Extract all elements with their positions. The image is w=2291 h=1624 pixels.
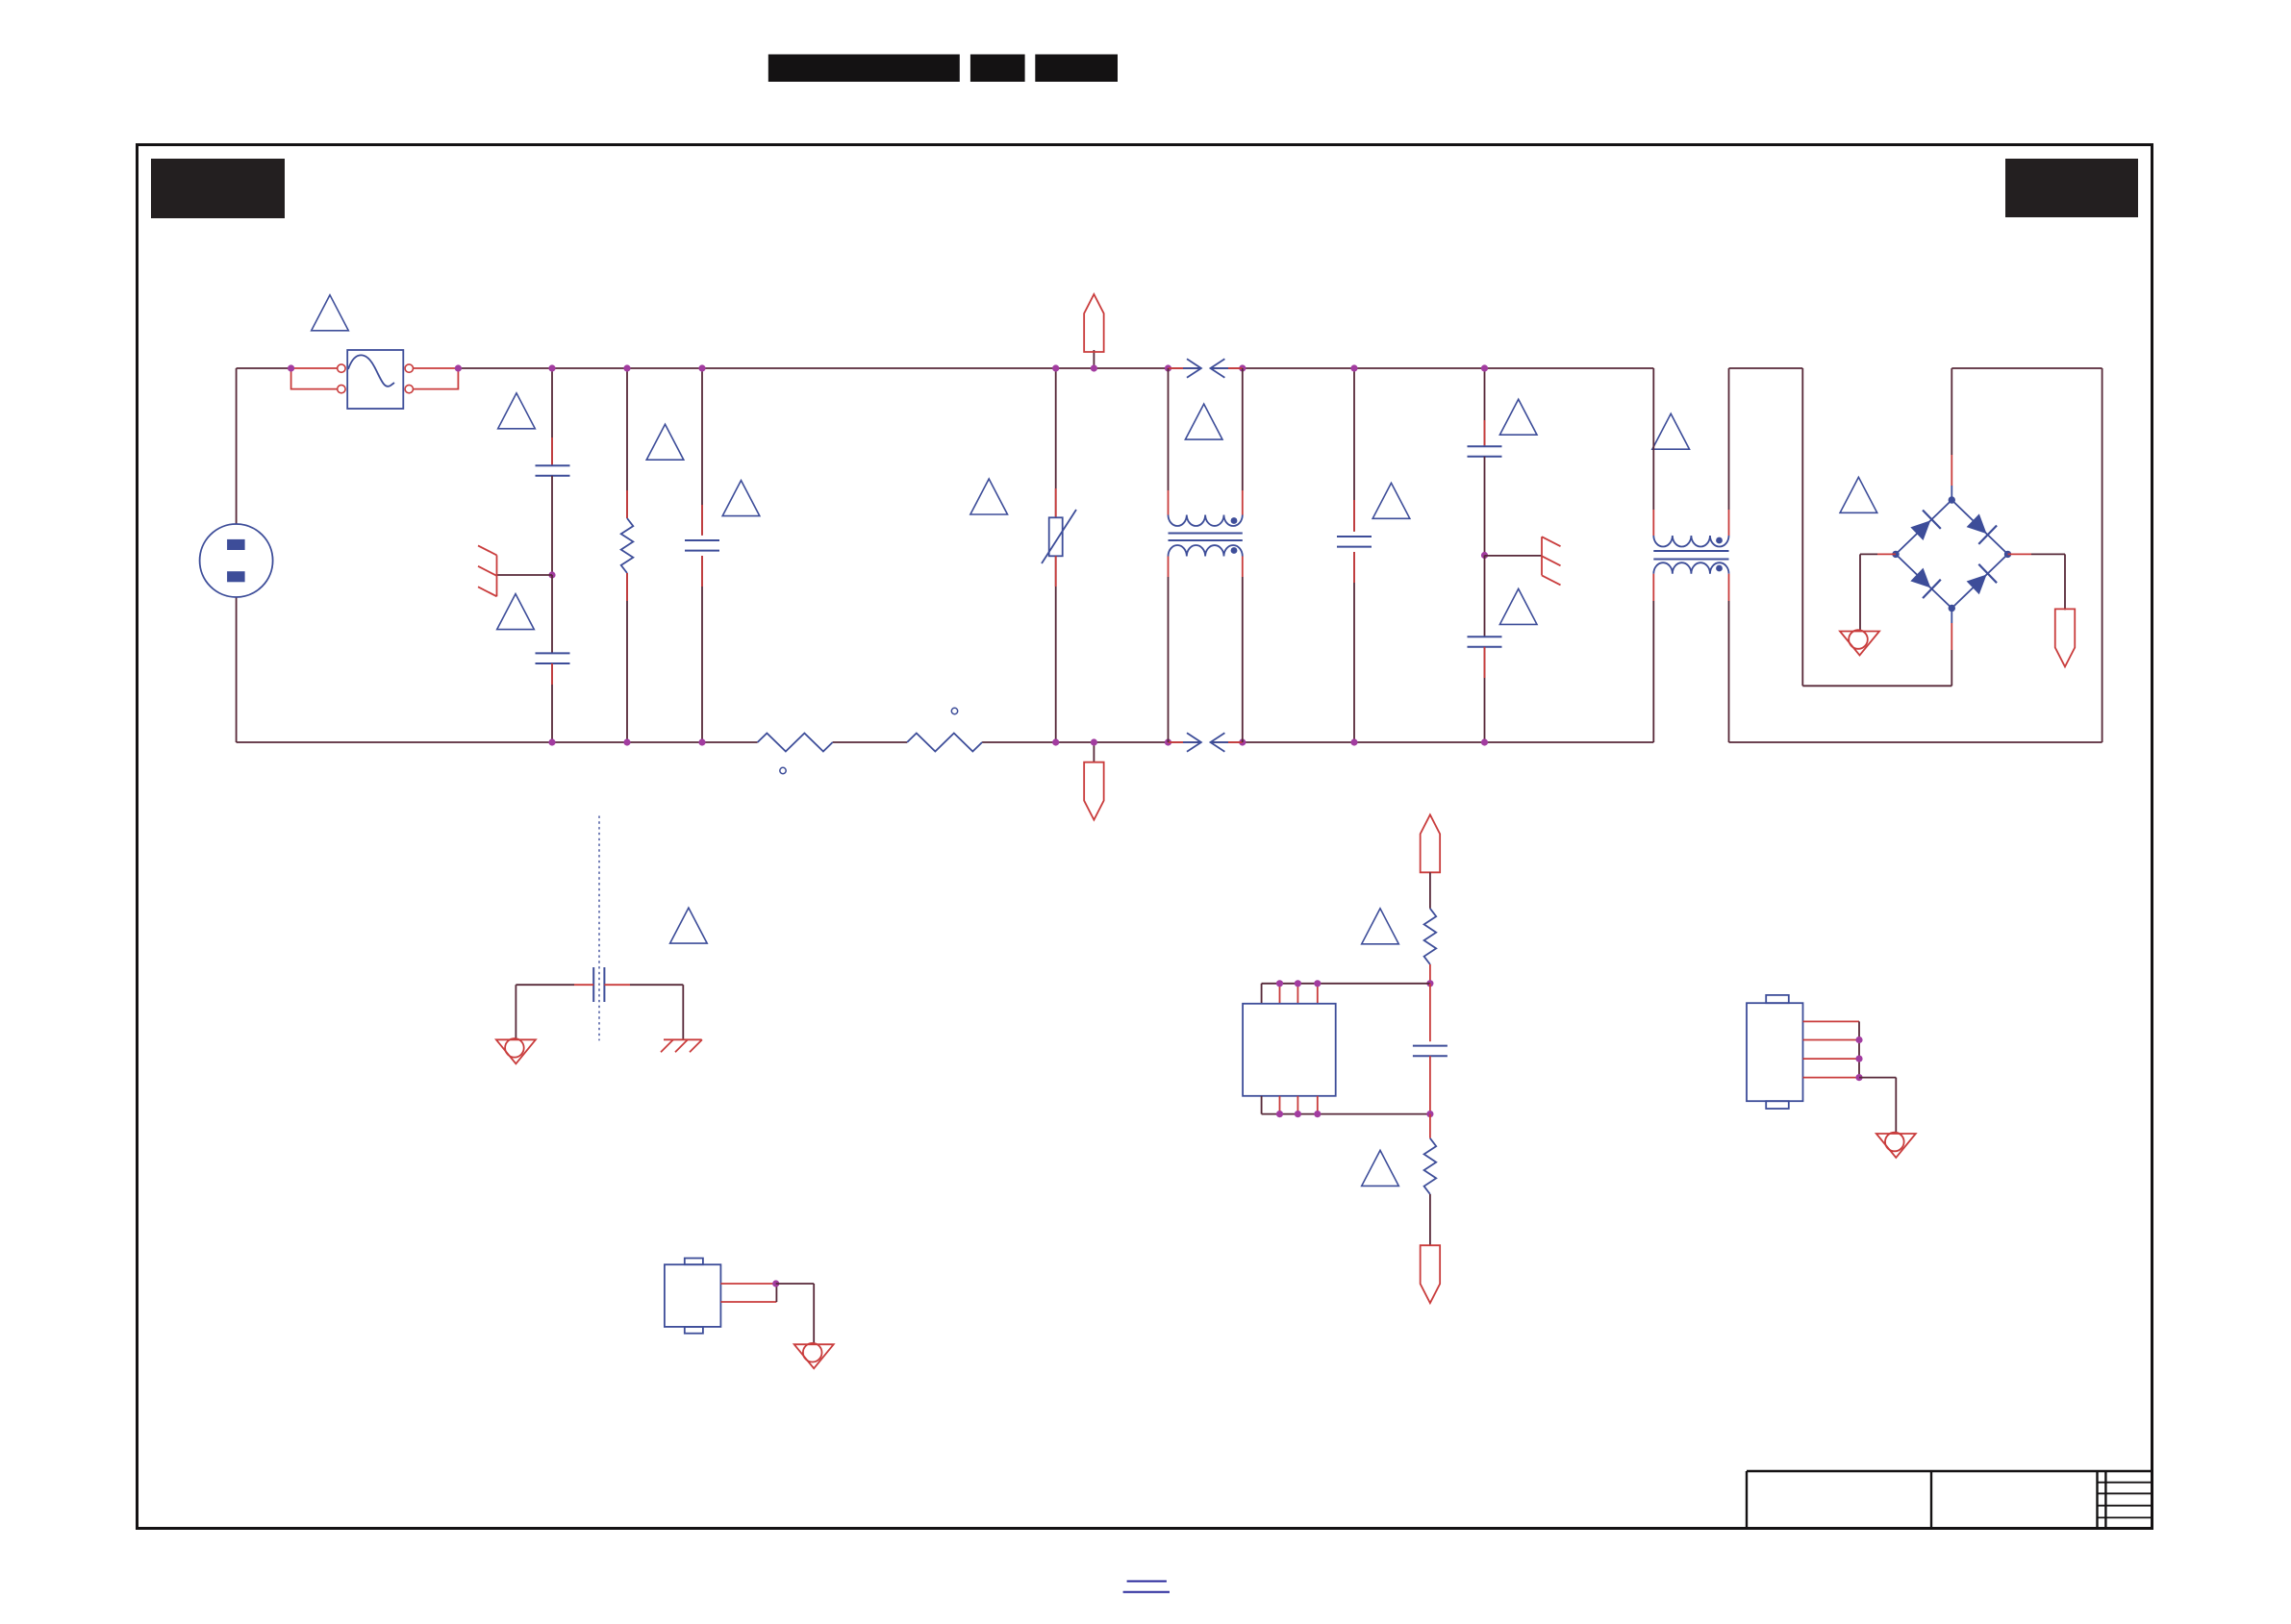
earth ground (bridge) [1840,632,1879,656]
warning triangle (below IC) [1362,1150,1399,1186]
resistor R3 [1424,1138,1437,1194]
warning triangle (below C6) [1499,588,1537,624]
junction top bus / L1 left [1165,364,1171,371]
junction fuse right [455,364,462,371]
redacted block top-left [151,159,285,218]
earth ground (J3) [1876,1134,1916,1158]
wire C4 top [1353,368,1355,532]
junction Y-cap midpoint [548,571,555,578]
junction bottom bus / R1 [623,738,630,745]
wire J3 pin tie bus [1858,1021,1860,1077]
junction C8 / bottom pin bus [1426,1111,1433,1117]
wire J3 pin 4 [1803,1077,1860,1079]
net flag AC-N (bottom) [1093,742,1095,762]
junction top bus / C5 [1481,364,1488,371]
junction fuse left [288,364,294,371]
thermistor RT2 (NTC in neutral) [907,734,982,752]
wire secondary top run [1802,685,1951,687]
IC top pin stubs [1261,984,1263,1004]
wire top right run [1951,367,2102,369]
L1 polarity dot B [1231,547,1238,554]
junction top bus / C4 [1350,364,1357,371]
junctions IC top pins [1276,980,1283,987]
warning triangle (right of C3) [722,481,760,516]
wire R3 to flag [1429,1194,1431,1245]
junction bottom bus / C4 [1350,738,1357,745]
warning triangle (above L2) [1652,413,1690,449]
wire bridge bottom to secondary run [1951,609,1952,624]
warning triangle (near P1) [312,295,349,331]
wire C7 left [574,984,593,986]
earth ground (C7 left) [496,1039,536,1063]
wire top AC bus (line) [237,367,291,369]
wire C5 to junction [1484,457,1486,556]
thermistor RT1 (NTC in neutral) [758,734,833,752]
warning triangle (left of varistor) [970,479,1008,514]
capacitor C2 (Y-cap lower) [551,575,553,653]
wire J3 pin 3 [1803,1058,1860,1060]
junction top bus / R1 [623,364,630,371]
wire node to C8 [1429,984,1431,1041]
L2 polarity dot A [1716,537,1723,544]
junctions J3 pins [1855,1037,1862,1043]
warning triangle (right of C4) [1372,483,1410,518]
junction bottom bus / L1 right [1239,738,1246,745]
bridge rectifier D1 ring [1896,500,2008,609]
spark gap G2 (bottom) [1183,741,1200,743]
wire AC inlet to top bus [236,368,238,524]
common-mode choke L1 winding A [1169,515,1243,527]
redacted block top-right [2005,159,2138,217]
warning triangle (above Y-caps) [498,393,536,429]
wire bridge minus to earth [1877,553,1896,555]
junction C5/C6 midpoint [1481,552,1488,559]
capacitor C8 [1413,1045,1448,1047]
wire AC inlet to bottom bus [236,597,238,742]
wire down to bridge top [1951,368,1952,455]
spark gap G1 (top) [1183,367,1200,369]
net flag VCC (IC) [1421,814,1441,872]
warning triangle (left of bridge) [1840,477,1877,512]
junction top bus / RV1 [1052,364,1059,371]
wire R1 to bottom bus [626,573,628,742]
wire J2 pin 2 [720,1301,776,1303]
wire J2 pin 1 [720,1283,775,1285]
wire J3 pin 1 [1803,1020,1860,1022]
warning triangle (above C5) [1499,399,1537,435]
IC bottom pin stubs [1261,1096,1263,1114]
junction bottom bus / Y-caps [548,738,555,745]
wire C8 to bottom node [1429,1056,1431,1113]
L1 polarity dot A [1231,517,1238,524]
junction top bus / Y-caps [548,364,555,371]
diode D1c (L to B) [1908,565,1941,598]
wire bottom AC bus (neutral) [237,741,758,743]
wire varistor bottom [1055,556,1057,742]
IC U1 [1243,1004,1336,1096]
capacitor C7 (line-to-chassis Y-cap) [592,967,594,1002]
connector J2 [665,1264,721,1327]
common-mode choke L2 winding B [1653,562,1728,574]
redacted title text bar [768,55,960,83]
line filter / fuse F1 [347,350,403,409]
diode D1d (B to R) [1964,564,1997,597]
title block [1747,1470,2152,1472]
common-mode choke L2 core [1653,550,1728,552]
warning triangle (C7) [670,908,708,943]
wire IC top pin bus [1262,983,1430,985]
resistor R1 (bleeder) [621,518,634,573]
wire secondary bottom run [1729,741,2102,743]
net flag DC output [2055,609,2076,666]
wire bottom node to R3 [1429,1114,1431,1138]
wire C2 to bottom bus [551,663,553,742]
wire to chassis ground [497,574,553,576]
capacitor C4 (X-cap) [1337,536,1372,537]
wire X-cap branch top [701,368,703,536]
common-mode choke L2 rail bottom-left [1652,574,1654,601]
wire C6 to bottom bus [1484,647,1486,742]
wire down to secondary top [1801,368,1803,686]
wire C5 top [1484,368,1486,446]
wire L2 right to corner [1729,367,1803,369]
page footer marks [1127,1581,1167,1583]
junction top bus / C3 [698,364,705,371]
junction bottom bus / RV1 [1052,738,1059,745]
capacitor C5 (Y-cap upper) [1468,445,1502,447]
earth ground (J2) [794,1344,834,1368]
warning triangle (inside L1) [1185,404,1222,439]
junction R2 / top pin bus [1426,980,1433,987]
AC inlet plug P1 [200,524,273,597]
wire R2 to node [1429,964,1431,984]
wire up right side [2102,368,2103,742]
junction bottom bus / C3 [698,738,705,745]
wire J3 to earth [1859,1077,1896,1079]
wire bridge plus to output flag [2008,553,2032,555]
junction bottom bus / C6 [1481,738,1488,745]
wire resistor branch top [626,368,628,518]
diode D1b (T to R) [1964,512,1997,544]
common-mode choke L2 rail bottom-right [1728,574,1730,601]
capacitor C3 (X-cap) [685,539,719,541]
wire J3 pin 2 [1803,1039,1860,1041]
L2 polarity dot B [1716,565,1723,572]
resistor R2 [1424,909,1437,964]
junction top bus / L1 right [1239,364,1246,371]
chassis ground (Y-cap mid) [496,555,498,596]
warning triangle (left of C3) [646,424,684,460]
capacitor C6 (Y-cap lower) [1484,556,1486,637]
bridge vertex nodes [1949,496,1955,503]
common-mode choke L2 winding A [1653,536,1728,547]
common-mode choke L1 rails [1168,368,1170,490]
wire varistor top [1055,368,1057,517]
common-mode choke L1 winding B [1169,545,1243,557]
junctions IC bottom pins [1276,1111,1283,1117]
varistor RV1 [1049,517,1063,556]
chassis ground (C5/C6 mid) [1541,537,1543,575]
wire fuse left pins [291,367,338,369]
wire C3 to bottom bus [701,556,703,742]
wire C4 bottom [1353,552,1355,742]
capacitor C1 (Y-cap upper) [536,464,570,466]
diode D1a (L to T) [1908,511,1941,543]
common-mode choke L1 core [1169,533,1243,535]
warning triangle (above IC) [1362,909,1399,944]
wire C1 to junction [551,476,553,575]
chassis ground (C7 right) [664,1038,702,1040]
net flag GND (IC) [1421,1245,1441,1303]
wire J2 to earth [776,1283,815,1285]
common-mode choke L2 rail top-left [1652,368,1654,510]
wire IC bottom pin bus [1262,1113,1430,1115]
wire C7 right [604,984,630,986]
wire Y-cap branch top [551,368,553,465]
junction bottom bus / L1 left [1165,738,1171,745]
wire flag to R2 [1429,872,1431,909]
wire to chassis ground 2 [1485,555,1543,557]
net flag AC-L (top) [1093,350,1095,368]
warning triangle (below Y-cap junction) [497,594,535,630]
isolation barrier (dashed) [598,816,600,1041]
connector J3 [1747,1003,1803,1101]
wire fuse right pins [414,367,459,369]
junction J2 pins [772,1280,779,1287]
common-mode choke L2 rail top-right [1728,510,1730,536]
